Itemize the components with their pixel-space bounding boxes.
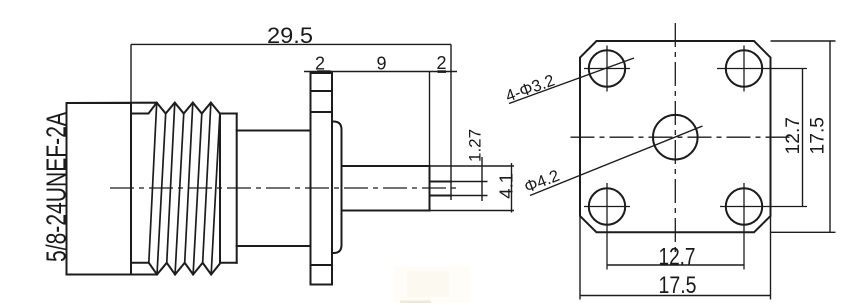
thread flank lines	[149, 103, 220, 274]
flange chamfer line bottom	[311, 264, 333, 266]
ext shaft end	[429, 72, 431, 167]
shaft outline	[342, 165, 430, 167]
arrow bar 2 (pin)	[438, 70, 447, 73]
svg-text:5/8-24UNEF-2A: 5/8-24UNEF-2A	[41, 112, 72, 262]
crosshair BR + ext	[720, 206, 807, 208]
shaft end face	[429, 166, 431, 211]
leader 4-phi3.2	[509, 58, 634, 104]
hole top-left	[589, 50, 625, 86]
svg-text:4-Φ3.2: 4-Φ3.2	[503, 71, 557, 105]
thread crest top line	[67, 103, 237, 114]
centerline vertical	[674, 23, 676, 252]
dim line 2-9-2	[304, 71, 457, 73]
svg-text:2: 2	[315, 54, 325, 74]
svg-text:17.5: 17.5	[808, 117, 829, 155]
ext flange left	[310, 72, 312, 78]
svg-text:2: 2	[436, 53, 446, 73]
ext 17.5 right top	[771, 40, 836, 42]
arrow bar 2 (flange)	[317, 70, 331, 73]
crosshair TL	[584, 68, 630, 70]
dim line 17.5 bottom	[580, 295, 771, 297]
center hole	[653, 115, 698, 160]
ext 17.5 bottom left	[579, 216, 581, 300]
ext line left 29.5	[130, 44, 132, 103]
crosshair BL + ext	[584, 206, 630, 208]
dim line 12.7 right	[802, 69, 804, 207]
dim line 17.5 right	[829, 41, 831, 232]
svg-text:1.27: 1.27	[466, 129, 485, 162]
pin outline	[430, 181, 452, 183]
ext line right 29.5 / 2	[450, 44, 452, 200]
flange (side view)	[311, 73, 333, 285]
svg-text:17.5: 17.5	[659, 272, 697, 299]
crosshair TR + ext	[717, 68, 807, 70]
dim 1.27 extension lines	[451, 181, 488, 183]
ext 17.5 right bottom	[771, 231, 836, 233]
thread root top runout	[131, 103, 157, 114]
centerline horizontal	[571, 136, 791, 138]
leader phi4.2	[530, 126, 703, 196]
body behind flange	[332, 122, 342, 254]
hole bottom-left	[589, 188, 625, 224]
thread crest bottom line	[67, 263, 237, 275]
dim line 1.27	[481, 157, 483, 201]
flange plate front view	[580, 41, 771, 232]
dim 4.1 extension lines	[430, 165, 515, 167]
flange hole line top	[311, 111, 333, 113]
ext 17.5 bottom right	[770, 216, 772, 300]
centerline left view	[110, 187, 458, 189]
hole bottom-right	[726, 188, 762, 224]
watermark blob	[394, 266, 470, 303]
svg-text:12.7: 12.7	[659, 243, 696, 270]
mid cylinder	[237, 130, 311, 132]
dim line 12.7 bottom	[607, 264, 744, 266]
dim line 29.5	[131, 43, 451, 45]
hole top-right	[726, 50, 762, 86]
dim line 4.1	[511, 163, 513, 213]
svg-text:4.1: 4.1	[496, 173, 517, 199]
thread root bottom runout	[131, 263, 157, 275]
svg-text:Φ4.2: Φ4.2	[522, 167, 562, 197]
svg-text:9: 9	[376, 54, 386, 74]
thread runout collar	[219, 114, 221, 263]
svg-text:12.7: 12.7	[783, 117, 804, 155]
flange chamfer line top	[311, 90, 333, 92]
coupling nut body	[67, 103, 132, 275]
svg-text:29.5: 29.5	[267, 23, 313, 48]
ext flange right	[331, 72, 333, 78]
